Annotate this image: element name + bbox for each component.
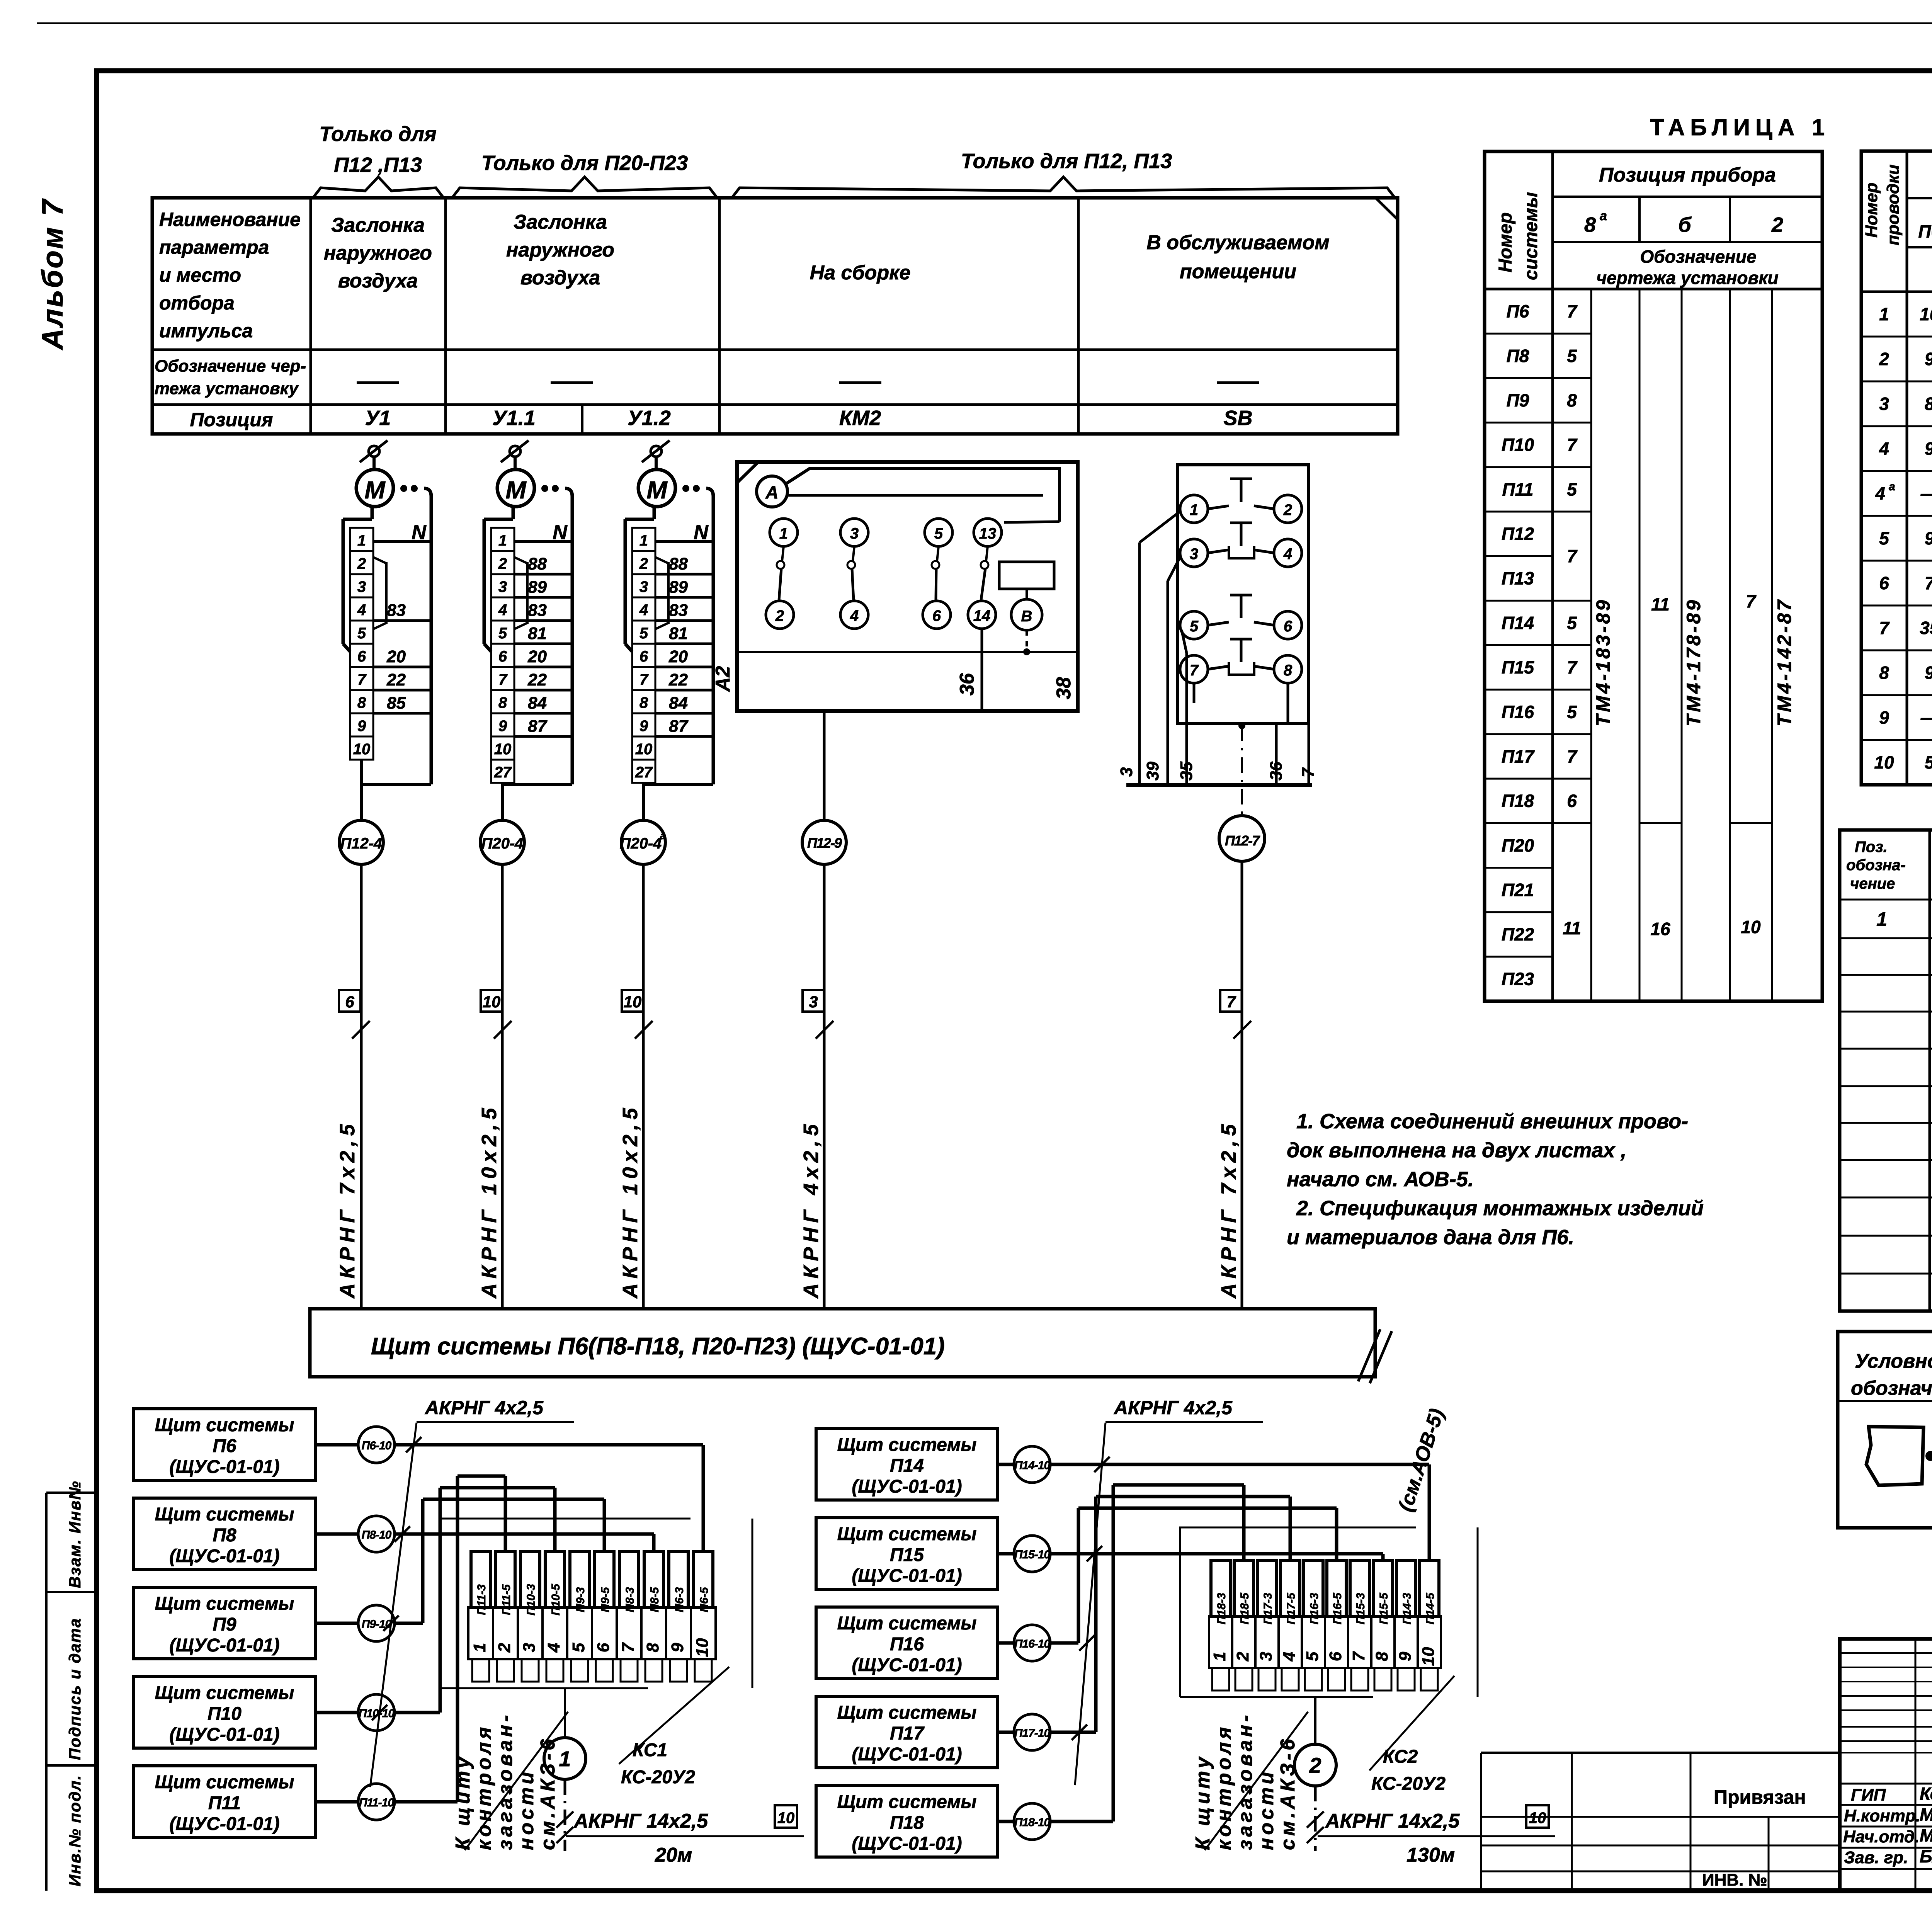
svg-text:1: 1 [639, 532, 648, 549]
svg-text:б: б [1678, 213, 1692, 236]
svg-text:П8-10: П8-10 [362, 1529, 392, 1541]
svg-text:9: 9 [639, 718, 648, 735]
svg-text:У1: У1 [365, 406, 391, 430]
svg-text:А2: А2 [712, 666, 734, 692]
svg-text:1: 1 [1879, 304, 1889, 324]
svg-text:1: 1 [1876, 908, 1887, 930]
svg-text:2: 2 [1233, 1651, 1252, 1662]
svg-text:Только для П12, П13: Только для П12, П13 [961, 150, 1172, 173]
svg-text:7: 7 [619, 1642, 638, 1652]
svg-text:7: 7 [1567, 657, 1578, 677]
svg-text:7: 7 [357, 671, 367, 688]
svg-text:Щит системы: Щит системы [837, 1613, 977, 1634]
svg-text:8: 8 [498, 694, 507, 711]
svg-text:и место: и место [159, 264, 241, 286]
svg-text:АКРНГ 4х2,5: АКРНГ 4х2,5 [799, 1120, 823, 1299]
svg-text:М: М [364, 476, 386, 504]
svg-text:5: 5 [498, 625, 507, 642]
svg-text:(ЩУС-01-01): (ЩУС-01-01) [852, 1833, 962, 1854]
svg-text:10: 10 [624, 993, 642, 1011]
svg-text:4: 4 [1280, 1652, 1299, 1662]
svg-text:89: 89 [528, 578, 547, 597]
svg-text:7: 7 [1567, 746, 1578, 766]
svg-text:7: 7 [1925, 573, 1932, 593]
svg-text:89: 89 [669, 578, 688, 597]
svg-text:воздуха: воздуха [338, 270, 418, 292]
svg-text:6: 6 [345, 993, 354, 1011]
svg-text:130м: 130м [1406, 1844, 1455, 1866]
svg-text:2: 2 [1879, 349, 1889, 369]
svg-text:П8: П8 [1507, 346, 1529, 366]
svg-text:П11: П11 [208, 1793, 241, 1813]
svg-text:84: 84 [669, 694, 688, 713]
svg-text:8: 8 [1372, 1651, 1391, 1661]
svg-text:П14-5: П14-5 [1424, 1592, 1437, 1624]
svg-text:10: 10 [693, 1638, 712, 1657]
svg-text:20: 20 [668, 647, 688, 666]
svg-text:(ЩУС-01-01): (ЩУС-01-01) [852, 1476, 962, 1497]
svg-text:4: 4 [1879, 439, 1889, 459]
svg-text:П11-3: П11-3 [475, 1584, 488, 1615]
svg-text:7: 7 [1299, 767, 1318, 777]
svg-text:Взам. Инв№: Взам. Инв№ [66, 1480, 84, 1588]
svg-text:Наименование: Наименование [159, 209, 301, 230]
svg-text:Щит системы: Щит системы [837, 1792, 977, 1812]
svg-text:7: 7 [1567, 301, 1578, 321]
svg-text:81: 81 [669, 624, 688, 643]
svg-text:35: 35 [1920, 618, 1932, 638]
svg-text:5: 5 [1567, 346, 1577, 366]
svg-text:7: 7 [1879, 618, 1890, 638]
svg-text:Номер: Номер [1495, 212, 1516, 272]
svg-text:КС-20У2: КС-20У2 [621, 1767, 695, 1787]
svg-text:воздуха: воздуха [520, 267, 600, 289]
svg-text:П17: П17 [890, 1723, 925, 1744]
svg-text:П9: П9 [213, 1614, 236, 1635]
svg-text:6: 6 [594, 1643, 613, 1652]
svg-text:импульса: импульса [159, 320, 253, 342]
svg-text:Малахов: Малахов [1920, 1825, 1932, 1845]
svg-text:2: 2 [1283, 502, 1292, 519]
svg-text:Щит системы: Щит системы [155, 1683, 294, 1703]
svg-text:ности: ности [1255, 1769, 1278, 1850]
svg-text:10: 10 [1741, 917, 1761, 937]
svg-text:1: 1 [559, 1747, 571, 1771]
svg-text:1: 1 [357, 532, 366, 549]
svg-text:5: 5 [639, 625, 648, 642]
svg-text:14: 14 [973, 607, 991, 624]
svg-text:10: 10 [494, 741, 512, 758]
svg-text:Щит системы: Щит системы [155, 1504, 294, 1525]
svg-text:а: а [1889, 480, 1895, 493]
svg-text:Обозначение чер-: Обозначение чер- [155, 357, 306, 376]
svg-text:8: 8 [643, 1643, 662, 1652]
svg-text:10: 10 [1419, 1647, 1438, 1666]
svg-text:АКРНГ 7х2,5: АКРНГ 7х2,5 [1217, 1120, 1240, 1299]
svg-text:5: 5 [1925, 752, 1932, 772]
svg-text:П12-9: П12-9 [807, 835, 842, 851]
svg-text:9: 9 [1925, 439, 1932, 459]
svg-text:22: 22 [668, 670, 688, 689]
svg-text:3: 3 [520, 1643, 539, 1652]
svg-text:КС-20У2: КС-20У2 [1371, 1774, 1446, 1794]
svg-text:контроля: контроля [473, 1724, 495, 1850]
svg-text:Корастелев: Корастелев [1920, 1784, 1932, 1804]
svg-text:10: 10 [635, 741, 653, 758]
svg-text:39: 39 [1143, 762, 1162, 781]
svg-text:П8: П8 [213, 1525, 236, 1546]
svg-text:9: 9 [668, 1643, 687, 1652]
svg-text:(ЩУС-01-01): (ЩУС-01-01) [852, 1744, 962, 1765]
svg-text:2: 2 [639, 555, 648, 572]
svg-text:3: 3 [357, 578, 366, 595]
svg-text:П14: П14 [1502, 613, 1534, 633]
svg-text:(ЩУС-01-01): (ЩУС-01-01) [169, 1546, 279, 1566]
svg-text:П16: П16 [1502, 702, 1534, 722]
svg-text:П18-3: П18-3 [1215, 1593, 1228, 1624]
svg-text:5: 5 [1567, 702, 1577, 722]
svg-text:(ЩУС-01-01): (ЩУС-01-01) [169, 1725, 279, 1745]
svg-text:Щит системы: Щит системы [837, 1435, 977, 1455]
svg-text:5: 5 [934, 525, 943, 542]
svg-text:1: 1 [470, 1643, 489, 1652]
svg-text:Блудова: Блудова [1920, 1846, 1932, 1866]
svg-text:П8-5: П8-5 [648, 1587, 661, 1612]
svg-text:У1.1: У1.1 [492, 406, 536, 430]
svg-text:Щит системы: Щит системы [155, 1594, 294, 1614]
svg-text:ТМ4-142-87: ТМ4-142-87 [1774, 598, 1795, 726]
svg-text:П17-5: П17-5 [1285, 1592, 1298, 1624]
svg-text:и материалов дана для П6.: и материалов дана для П6. [1287, 1226, 1574, 1249]
svg-text:10: 10 [777, 1810, 795, 1827]
svg-text:П20: П20 [1502, 835, 1534, 855]
svg-text:Малахов: Малахов [1920, 1804, 1932, 1825]
svg-text:1: 1 [1190, 502, 1198, 519]
svg-text:1. Схема соединений внешних пр: 1. Схема соединений внешних прово- [1296, 1110, 1688, 1133]
svg-text:отбора: отбора [159, 292, 235, 314]
svg-text:7: 7 [639, 671, 649, 688]
svg-text:2. Спецификация монтажных изд: 2. Спецификация монтажных изделий [1296, 1197, 1704, 1220]
svg-text:АКРНГ 10х2,5: АКРНГ 10х2,5 [478, 1103, 501, 1299]
svg-text:5: 5 [1303, 1651, 1322, 1661]
svg-text:ности: ности [515, 1769, 538, 1850]
svg-text:Н.контр.: Н.контр. [1844, 1806, 1920, 1825]
svg-text:П10-10: П10-10 [359, 1707, 395, 1720]
svg-text:начало см. АОВ-5.: начало см. АОВ-5. [1287, 1168, 1474, 1191]
svg-text:Щит системы П6(П8-П18, П20-: Щит системы П6(П8-П18, П20-П23) (ЩУС-01-… [371, 1333, 945, 1360]
svg-text:7: 7 [1567, 435, 1578, 455]
svg-text:АКРНГ 7х2,5: АКРНГ 7х2,5 [336, 1120, 359, 1299]
svg-text:Обозначение: Обозначение [1640, 247, 1756, 267]
svg-text:10: 10 [1529, 1810, 1546, 1827]
svg-text:помещении: помещении [1180, 260, 1296, 283]
svg-text:Позиция: Позиция [190, 409, 273, 430]
svg-text:П11: П11 [1502, 479, 1534, 499]
svg-text:док выполнена на двух листах: док выполнена на двух листах , [1287, 1139, 1626, 1162]
svg-text:П15: П15 [1502, 657, 1535, 677]
svg-text:9: 9 [1879, 707, 1889, 728]
svg-text:Номер: Номер [1862, 182, 1881, 238]
svg-text:8: 8 [1284, 662, 1293, 679]
svg-text:П14-10: П14-10 [1014, 1459, 1051, 1472]
svg-text:П13: П13 [1502, 568, 1534, 588]
svg-text:2: 2 [495, 1643, 514, 1653]
svg-text:К щиту: К щиту [1192, 1754, 1214, 1850]
svg-text:81: 81 [528, 624, 547, 643]
svg-text:3: 3 [850, 525, 859, 542]
svg-text:П20-4: П20-4 [620, 835, 662, 852]
svg-text:3: 3 [639, 578, 648, 595]
svg-text:П22: П22 [1502, 924, 1534, 944]
svg-text:П6-3: П6-3 [673, 1587, 686, 1612]
svg-text:27: 27 [635, 764, 653, 781]
svg-text:—: — [1920, 707, 1932, 728]
svg-text:АКРНГ 14х2,5: АКРНГ 14х2,5 [1325, 1810, 1460, 1832]
svg-text:8: 8 [639, 694, 648, 711]
svg-text:АКРНГ 14х2,5: АКРНГ 14х2,5 [573, 1810, 708, 1832]
svg-text:П12-4: П12-4 [340, 835, 383, 852]
svg-text:П15-5: П15-5 [1378, 1592, 1390, 1624]
svg-text:ТМ4-178-89: ТМ4-178-89 [1683, 598, 1704, 726]
svg-text:П6: П6 [1918, 221, 1932, 241]
svg-text:13: 13 [979, 525, 997, 542]
svg-text:П11-10: П11-10 [359, 1796, 394, 1809]
svg-text:7: 7 [1567, 546, 1578, 566]
svg-text:4: 4 [1283, 546, 1292, 563]
svg-text:2: 2 [1771, 213, 1783, 236]
svg-text:Позиция прибора: Позиция прибора [1599, 164, 1776, 186]
svg-text:Альбом 7: Альбом 7 [36, 198, 69, 350]
svg-text:наружного: наружного [324, 242, 432, 264]
svg-text:П6: П6 [1507, 301, 1529, 321]
svg-text:наружного: наружного [506, 239, 614, 261]
svg-text:10: 10 [483, 993, 501, 1011]
svg-text:чение: чение [1850, 875, 1895, 892]
svg-text:обозна-: обозна- [1846, 857, 1906, 874]
svg-text:П12 ,П13: П12 ,П13 [334, 153, 422, 177]
svg-text:Щит системы: Щит системы [155, 1415, 294, 1435]
svg-text:П15: П15 [890, 1545, 924, 1565]
svg-text:А: А [765, 482, 778, 502]
svg-text:10: 10 [1874, 752, 1894, 772]
svg-text:М: М [646, 476, 668, 504]
svg-text:2: 2 [498, 555, 507, 572]
svg-text:4: 4 [498, 602, 507, 619]
svg-text:2: 2 [775, 607, 784, 624]
svg-text:SB: SB [1223, 406, 1252, 430]
svg-text:П18: П18 [890, 1813, 924, 1833]
svg-text:чертежа установки: чертежа установки [1596, 268, 1778, 288]
svg-text:6: 6 [932, 607, 941, 624]
svg-text:16: 16 [1650, 919, 1670, 939]
svg-text:35: 35 [1177, 762, 1196, 781]
svg-text:2: 2 [357, 555, 366, 572]
svg-text:Зав. гр.: Зав. гр. [1844, 1848, 1908, 1867]
svg-text:П10: П10 [1502, 435, 1534, 455]
svg-text:20: 20 [386, 647, 406, 666]
svg-text:87: 87 [528, 717, 548, 736]
svg-text:П6-10: П6-10 [362, 1439, 392, 1452]
svg-text:П14: П14 [890, 1456, 924, 1476]
svg-text:38: 38 [1053, 677, 1075, 699]
svg-text:П10-5: П10-5 [549, 1583, 562, 1616]
svg-text:5: 5 [1190, 618, 1199, 635]
svg-text:3: 3 [809, 993, 818, 1011]
svg-text:На сборке: На сборке [810, 262, 911, 284]
svg-text:8: 8 [1567, 390, 1577, 410]
svg-text:4: 4 [357, 602, 366, 619]
svg-text:36: 36 [956, 673, 978, 696]
svg-text:7: 7 [1349, 1651, 1368, 1661]
svg-text:П6: П6 [213, 1436, 236, 1456]
svg-text:В обслуживаемом: В обслуживаемом [1146, 231, 1329, 254]
svg-text:П9-5: П9-5 [599, 1587, 612, 1612]
svg-text:параметра: параметра [159, 236, 269, 258]
svg-text:6: 6 [498, 648, 507, 665]
svg-text:П9: П9 [1507, 390, 1529, 410]
svg-text:27: 27 [494, 764, 512, 781]
svg-text:2: 2 [1309, 1753, 1321, 1777]
svg-text:10: 10 [1920, 304, 1932, 324]
svg-text:П15-10: П15-10 [1014, 1548, 1051, 1561]
svg-text:7: 7 [1226, 993, 1236, 1011]
svg-text:88: 88 [528, 554, 547, 573]
svg-text:П12-7: П12-7 [1225, 833, 1260, 849]
svg-text:85: 85 [387, 694, 406, 713]
svg-text:3: 3 [1190, 546, 1198, 563]
svg-text:8: 8 [1584, 213, 1596, 236]
svg-text:П21: П21 [1502, 880, 1534, 900]
svg-text:5: 5 [1567, 613, 1577, 633]
svg-text:П23: П23 [1502, 969, 1534, 989]
svg-text:Только для: Только для [319, 122, 437, 146]
svg-text:Заслонка: Заслонка [514, 211, 607, 233]
svg-text:ИНВ. №: ИНВ. № [1702, 1871, 1767, 1889]
svg-text:АКРНГ 4х2,5: АКРНГ 4х2,5 [424, 1397, 544, 1418]
svg-text:ТМ4-183-89: ТМ4-183-89 [1592, 598, 1614, 726]
svg-text:М: М [505, 476, 527, 504]
svg-text:6: 6 [1284, 618, 1293, 635]
svg-text:6: 6 [357, 648, 366, 665]
svg-text:П17-10: П17-10 [1014, 1727, 1051, 1740]
svg-text:4: 4 [850, 607, 859, 624]
svg-text:10: 10 [353, 741, 371, 758]
svg-text:83: 83 [528, 601, 547, 620]
svg-text:9: 9 [1925, 663, 1932, 683]
svg-text:6: 6 [1567, 791, 1577, 811]
svg-text:83: 83 [387, 601, 406, 620]
svg-text:Нач.отд.: Нач.отд. [1843, 1827, 1919, 1846]
svg-text:загазован-: загазован- [1234, 1712, 1257, 1850]
svg-text:6: 6 [1879, 573, 1889, 593]
svg-text:П20-4: П20-4 [481, 835, 524, 852]
svg-text:84: 84 [528, 694, 547, 713]
svg-text:3: 3 [498, 578, 507, 595]
svg-text:83: 83 [669, 601, 688, 620]
svg-text:П11-5: П11-5 [500, 1584, 513, 1615]
svg-text:(ЩУС-01-01): (ЩУС-01-01) [169, 1814, 279, 1834]
svg-text:Привязан: Привязан [1714, 1786, 1806, 1808]
svg-text:6: 6 [639, 648, 648, 665]
svg-text:П8-3: П8-3 [624, 1587, 636, 1612]
svg-text:тежа установку: тежа установку [155, 379, 299, 398]
svg-text:5: 5 [357, 625, 366, 642]
svg-text:22: 22 [527, 670, 547, 689]
svg-text:П17: П17 [1502, 746, 1535, 766]
svg-text:В: В [1021, 608, 1032, 625]
svg-text:системы: системы [1521, 192, 1541, 280]
svg-text:9: 9 [1925, 528, 1932, 548]
svg-text:П16-5: П16-5 [1331, 1592, 1344, 1624]
svg-text:У1.2: У1.2 [628, 406, 671, 430]
svg-text:9: 9 [1925, 349, 1932, 369]
svg-text:Только для П20-П23: Только для П20-П23 [481, 151, 688, 175]
svg-text:Инв.№ подл.: Инв.№ подл. [66, 1775, 84, 1886]
svg-text:4: 4 [639, 602, 648, 619]
svg-text:П17-3: П17-3 [1262, 1593, 1274, 1624]
svg-text:П10: П10 [207, 1704, 241, 1724]
svg-text:П6-5: П6-5 [698, 1587, 711, 1612]
svg-text:36: 36 [1267, 762, 1286, 781]
svg-text:загазован-: загазован- [494, 1712, 517, 1850]
svg-text:АКРНГ 4х2,5: АКРНГ 4х2,5 [1113, 1397, 1233, 1418]
svg-text:22: 22 [386, 670, 406, 689]
svg-text:11: 11 [1563, 918, 1581, 938]
svg-text:20: 20 [527, 647, 547, 666]
svg-text:Щит системы: Щит системы [837, 1524, 977, 1544]
svg-text:Условное: Условное [1855, 1350, 1932, 1372]
svg-text:П10-3: П10-3 [525, 1584, 537, 1616]
svg-text:7: 7 [498, 671, 508, 688]
svg-text:а: а [660, 830, 666, 842]
svg-text:обозначение: обозначение [1851, 1377, 1932, 1400]
svg-text:6: 6 [1326, 1651, 1345, 1661]
svg-text:Подпись и дата: Подпись и дата [66, 1618, 84, 1760]
svg-text:8: 8 [357, 694, 366, 711]
svg-text:(ЩУС-01-01): (ЩУС-01-01) [852, 1655, 962, 1675]
svg-text:9: 9 [498, 718, 507, 735]
svg-text:4: 4 [544, 1643, 563, 1653]
svg-text:П18-10: П18-10 [1014, 1816, 1051, 1829]
svg-text:АКРНГ 10х2,5: АКРНГ 10х2,5 [619, 1103, 642, 1299]
svg-text:87: 87 [669, 717, 689, 736]
svg-text:КС1: КС1 [633, 1740, 667, 1760]
svg-text:П18: П18 [1502, 791, 1534, 811]
svg-text:4: 4 [1875, 483, 1885, 503]
svg-text:9: 9 [1396, 1651, 1415, 1661]
svg-text:3: 3 [1117, 767, 1136, 777]
svg-text:3: 3 [1257, 1652, 1276, 1661]
svg-text:(ЩУС-01-01): (ЩУС-01-01) [852, 1566, 962, 1586]
svg-text:7: 7 [1190, 662, 1199, 679]
svg-text:Поз.: Поз. [1855, 838, 1888, 855]
svg-text:1: 1 [1210, 1652, 1229, 1661]
svg-text:5: 5 [1567, 479, 1577, 499]
svg-text:1: 1 [779, 525, 788, 542]
svg-text:7: 7 [1746, 591, 1757, 611]
svg-text:8: 8 [1879, 663, 1889, 683]
svg-text:9: 9 [357, 718, 366, 735]
svg-text:Щит системы: Щит системы [837, 1702, 977, 1723]
svg-text:11: 11 [1651, 594, 1670, 614]
svg-text:—: — [1920, 483, 1932, 503]
svg-text:К щиту: К щиту [452, 1754, 474, 1850]
svg-text:контроля: контроля [1213, 1724, 1235, 1850]
svg-text:Заслонка: Заслонка [331, 214, 425, 236]
svg-text:П16-10: П16-10 [1014, 1638, 1051, 1650]
svg-text:проводки: проводки [1884, 165, 1903, 245]
svg-text:см.АКЗ-6: см.АКЗ-6 [537, 1736, 559, 1850]
